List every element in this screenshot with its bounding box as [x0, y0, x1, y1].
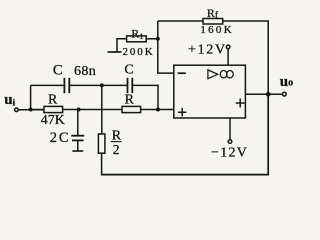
- wire node B down to resistor R/2 (crosses main row, no dot): [101, 85, 103, 134]
- node C junction dot: [156, 108, 160, 112]
- svg-text:47K: 47K: [41, 113, 65, 128]
- node E junction dot (inverting input node): [156, 37, 160, 41]
- wire feedback rail right down to output node: [223, 21, 269, 94]
- node A junction dot: [29, 108, 33, 112]
- wire node D down to capacitor 2C: [77, 110, 79, 136]
- output terminal u_o: [282, 92, 286, 96]
- wire 2C to ground: [77, 140, 79, 150]
- svg-text:R1: R1: [131, 27, 143, 41]
- capacitor C2 (second C): [128, 78, 133, 93]
- node B junction dot (C-C midpoint): [100, 83, 104, 87]
- svg-text:R: R: [125, 93, 135, 108]
- wire node B to capacitor C2: [102, 84, 128, 86]
- svg-text:uo: uo: [280, 74, 293, 90]
- svg-text:Rf: Rf: [207, 6, 219, 21]
- wire C2 right then down to node C: [132, 85, 158, 109]
- wire op-amp output to terminal: [245, 93, 282, 95]
- svg-text:ui: ui: [4, 92, 15, 108]
- wire R/2 bottom to bootstrap rail: [101, 153, 103, 174]
- wire node A up to capacitor row: [30, 85, 32, 109]
- wire R1out to node D: [63, 109, 122, 111]
- svg-text:2: 2: [113, 143, 120, 158]
- op-amp U1 box: [174, 65, 246, 118]
- svg-text:2C: 2C: [50, 130, 71, 146]
- wire input row from terminal to node A: [19, 109, 44, 111]
- svg-text:200K: 200K: [123, 46, 155, 58]
- input terminal u_i: [15, 108, 19, 112]
- svg-text:68n: 68n: [74, 64, 96, 79]
- capacitor C1 (first C, 68n): [64, 78, 69, 93]
- resistor R (first, 47K): [33, 109, 44, 111]
- resistor R1 (200K): [127, 36, 147, 42]
- -12V supply terminal: [228, 140, 232, 144]
- wire op-amp bottom to -12V: [229, 118, 231, 140]
- op-amp minus input sign: [178, 72, 186, 74]
- svg-text:+12V: +12V: [188, 43, 227, 58]
- svg-text:160K: 160K: [200, 24, 234, 36]
- resistor Rf (160K): [203, 19, 223, 25]
- capacitor 2C: [71, 136, 84, 141]
- wire R2out to op-amp + input: [141, 109, 174, 111]
- wire node E down to op-amp - input: [158, 39, 174, 73]
- wire node E up to feedback rail: [157, 21, 159, 39]
- svg-text:C: C: [53, 63, 63, 79]
- ground under 2C: [72, 150, 83, 152]
- wire between C1 and node B: [69, 84, 102, 86]
- output node junction dot: [266, 92, 271, 97]
- op-amp plus input sign: [178, 108, 186, 116]
- wire bootstrap bottom rail to output node: [101, 94, 268, 174]
- op-amp ideal triangle symbol: [208, 70, 218, 79]
- ground for R1: [108, 51, 122, 53]
- wire ground up to resistor R1: [117, 39, 127, 52]
- wire R1 to node E: [146, 38, 158, 40]
- wire capacitor row left: [31, 84, 65, 86]
- wire +12V to op-amp top: [227, 49, 229, 65]
- node D junction dot (R-R midpoint): [77, 108, 81, 112]
- svg-text:C: C: [124, 62, 133, 77]
- op-amp output plus sign: [236, 99, 245, 108]
- wire feedback rail left: [158, 20, 203, 22]
- svg-text:R: R: [48, 93, 58, 108]
- resistor R (second): [122, 106, 141, 112]
- svg-text:−12V: −12V: [211, 145, 248, 160]
- resistor R/2: [98, 134, 105, 153]
- op-amp infinity symbol: [220, 71, 233, 78]
